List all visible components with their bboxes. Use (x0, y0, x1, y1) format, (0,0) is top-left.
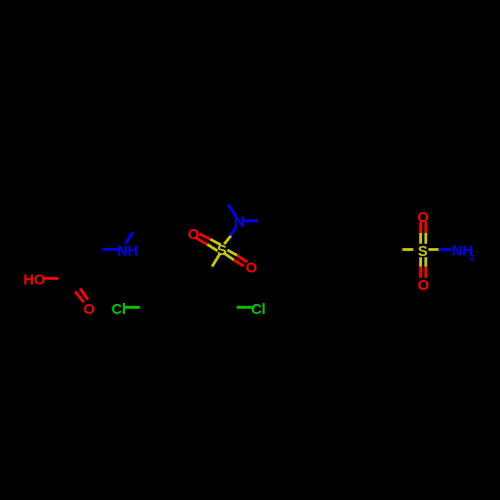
svg-text:Cl: Cl (251, 302, 266, 318)
svg-text:S: S (217, 243, 227, 259)
svg-text:O: O (188, 227, 199, 243)
double bond S=O bottom line 2 yellow half (424, 257, 427, 266)
double bond S=O lower-right line 1 yellow half (227, 250, 237, 255)
bond S-ring (yellow half) (212, 254, 220, 266)
bond Calpha-N (blue half) (103, 248, 118, 251)
bond ring-Cl right (green half) (237, 306, 253, 309)
svg-text:O: O (418, 278, 429, 294)
bond N-CH3 up-left (blue half) (228, 205, 236, 217)
svg-text:2: 2 (470, 253, 474, 262)
double bond S=O top line 1 yellow half (419, 233, 422, 244)
svg-text:S: S (418, 244, 428, 260)
double bond S=O bottom line 1 yellow half (419, 257, 422, 266)
bond O(H)-C carboxyl (red half) (44, 277, 59, 280)
double bond S=O upper-left line 2 yellow half (207, 244, 217, 251)
double bond C=O line 1 (red half) (75, 292, 84, 303)
double bond S=O upper-left line 1 red half (199, 234, 210, 240)
svg-text:N: N (234, 214, 245, 230)
double bond S=O upper-left line 2 red half (195, 237, 207, 244)
svg-text:NH: NH (117, 244, 138, 260)
svg-text:HO: HO (23, 273, 45, 289)
bond S-N blue half (439, 248, 452, 251)
double bond S=O lower-right line 2 red half (234, 260, 244, 266)
bond N-CH3 right (blue half) (243, 219, 259, 222)
double bond S=O lower-right line 2 yellow half (223, 253, 234, 260)
svg-text:O: O (417, 210, 428, 226)
svg-text:O: O (84, 302, 95, 318)
bond N-CH3 (blue half) (125, 232, 133, 243)
double bond S=O upper-left line 1 yellow half (210, 239, 221, 245)
bond S-N yellow half (224, 236, 231, 244)
double bond S=O top line 2 red half (424, 222, 427, 233)
double bond S=O bottom line 1 red half (419, 267, 422, 278)
bond S-N yellow half (428, 248, 438, 251)
svg-text:Cl: Cl (112, 302, 127, 318)
bond Cl-ring left (green half) (124, 306, 140, 309)
double bond S=O top line 2 yellow half (424, 233, 427, 244)
double bond S=O lower-right line 1 red half (237, 255, 247, 262)
double bond C=O line 2 (red half) (80, 288, 88, 299)
svg-text:O: O (246, 261, 257, 277)
bond S-N blue half (231, 226, 236, 235)
double bond S=O top line 1 red half (419, 222, 422, 233)
bond CH3-S (yellow half) (402, 248, 413, 251)
double bond S=O bottom line 2 red half (424, 267, 427, 278)
